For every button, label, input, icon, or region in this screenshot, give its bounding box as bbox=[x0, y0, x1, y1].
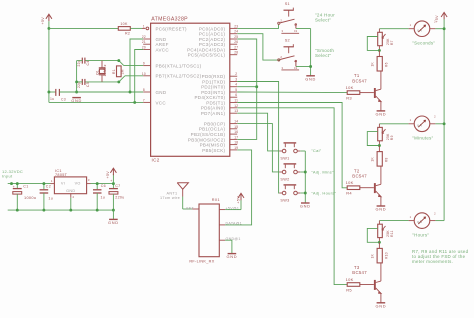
svg-text:26: 26 bbox=[234, 40, 238, 44]
svg-text:RX1: RX1 bbox=[212, 198, 220, 202]
svg-text:3: 3 bbox=[282, 66, 284, 70]
svg-text:"Cal": "Cal" bbox=[311, 148, 322, 153]
svg-text:2: 2 bbox=[434, 211, 436, 215]
svg-text:meter movements.: meter movements. bbox=[412, 259, 453, 264]
svg-text:C1: C1 bbox=[23, 185, 28, 189]
svg-text:S2: S2 bbox=[285, 38, 290, 42]
svg-text:PD6(AIN0): PD6(AIN0) bbox=[201, 106, 226, 111]
svg-text:1M: 1M bbox=[120, 69, 124, 74]
svg-text:1u: 1u bbox=[50, 97, 54, 101]
svg-text:ANT1: ANT1 bbox=[167, 191, 178, 195]
svg-text:14: 14 bbox=[234, 120, 238, 124]
svg-text:+5V: +5V bbox=[41, 17, 45, 25]
svg-text:3: 3 bbox=[88, 178, 90, 182]
svg-text:R11: R11 bbox=[390, 230, 394, 237]
svg-text:22: 22 bbox=[142, 35, 146, 39]
svg-text:AVCC: AVCC bbox=[156, 47, 170, 52]
svg-text:23: 23 bbox=[234, 24, 238, 28]
svg-text:R7: R7 bbox=[390, 40, 394, 45]
svg-text:6: 6 bbox=[235, 93, 237, 97]
svg-text:"Hours": "Hours" bbox=[412, 233, 429, 238]
svg-text:"Seconds": "Seconds" bbox=[412, 41, 435, 46]
svg-text:RF-LINK_RX: RF-LINK_RX bbox=[189, 260, 214, 264]
svg-text:1K: 1K bbox=[371, 253, 375, 258]
svg-text:R9: R9 bbox=[390, 135, 394, 140]
svg-text:PD7(AIN1): PD7(AIN1) bbox=[201, 111, 226, 116]
svg-text:GND: GND bbox=[227, 254, 238, 259]
svg-text:+: + bbox=[13, 185, 15, 189]
svg-text:Input: Input bbox=[2, 174, 13, 179]
svg-text:PB7(XTAL2/TOSC2): PB7(XTAL2/TOSC2) bbox=[156, 74, 202, 79]
svg-text:Select": Select" bbox=[315, 53, 331, 58]
svg-text:4: 4 bbox=[235, 83, 237, 87]
svg-text:PD4(XCK/T0): PD4(XCK/T0) bbox=[194, 95, 225, 100]
svg-text:GND: GND bbox=[156, 90, 167, 95]
svg-text:1u: 1u bbox=[101, 196, 106, 200]
svg-text:12: 12 bbox=[234, 104, 238, 108]
svg-text:11: 11 bbox=[234, 99, 238, 103]
svg-text:3: 3 bbox=[235, 78, 237, 82]
svg-text:15: 15 bbox=[234, 125, 238, 129]
svg-text:9: 9 bbox=[143, 62, 145, 66]
svg-text:16: 16 bbox=[234, 130, 238, 134]
svg-text:GND: GND bbox=[66, 189, 75, 193]
svg-text:+5V: +5V bbox=[106, 171, 110, 179]
svg-text:2: 2 bbox=[235, 72, 237, 76]
svg-text:VCC: VCC bbox=[156, 100, 167, 105]
svg-text:8: 8 bbox=[143, 88, 145, 92]
svg-text:22p: 22p bbox=[77, 82, 81, 88]
svg-text:1u: 1u bbox=[48, 196, 53, 200]
svg-text:VO: VO bbox=[75, 181, 81, 185]
svg-text:2: 2 bbox=[280, 55, 282, 59]
svg-text:IC2: IC2 bbox=[152, 158, 160, 163]
svg-text:28: 28 bbox=[234, 51, 238, 55]
svg-text:10K: 10K bbox=[346, 277, 354, 282]
svg-text:19: 19 bbox=[234, 146, 238, 150]
svg-text:1: 1 bbox=[410, 215, 412, 219]
svg-text:GND: GND bbox=[300, 204, 311, 209]
svg-text:1: 1 bbox=[410, 23, 412, 27]
svg-text:25K: 25K bbox=[386, 38, 390, 45]
svg-text:R10: R10 bbox=[384, 252, 388, 259]
svg-text:"Adj. Mins": "Adj. Mins" bbox=[311, 169, 334, 174]
svg-text:PD5(T1): PD5(T1) bbox=[206, 100, 225, 105]
svg-text:R8: R8 bbox=[384, 157, 388, 162]
svg-text:"Minutes": "Minutes" bbox=[412, 136, 433, 141]
svg-text:2: 2 bbox=[280, 18, 282, 22]
svg-text:10K: 10K bbox=[346, 85, 354, 90]
svg-text:22p: 22p bbox=[77, 60, 81, 66]
svg-text:25K: 25K bbox=[386, 230, 390, 237]
svg-text:PB2(SS/OC1B): PB2(SS/OC1B) bbox=[191, 132, 226, 137]
svg-text:PC0(ADC0): PC0(ADC0) bbox=[199, 26, 226, 31]
svg-text:SW1: SW1 bbox=[280, 156, 289, 160]
svg-text:24: 24 bbox=[234, 30, 238, 34]
svg-text:PC5(ADC5/SCL): PC5(ADC5/SCL) bbox=[188, 53, 226, 58]
svg-text:SW3: SW3 bbox=[280, 198, 289, 202]
svg-text:C5: C5 bbox=[86, 82, 90, 87]
svg-text:17cm wire: 17cm wire bbox=[160, 196, 180, 200]
svg-text:C3: C3 bbox=[61, 97, 66, 101]
svg-text:PD2(INT0): PD2(INT0) bbox=[201, 85, 225, 90]
svg-text:17: 17 bbox=[234, 135, 238, 139]
svg-text:1: 1 bbox=[410, 118, 412, 122]
svg-text:20: 20 bbox=[142, 46, 146, 50]
svg-text:AREF: AREF bbox=[156, 42, 169, 47]
svg-text:GND: GND bbox=[376, 207, 387, 212]
svg-text:R5: R5 bbox=[346, 287, 352, 292]
svg-text:Q1: Q1 bbox=[95, 70, 99, 75]
svg-text:25K: 25K bbox=[386, 133, 390, 140]
svg-text:PB4(MISO): PB4(MISO) bbox=[200, 143, 226, 148]
svg-text:R1: R1 bbox=[112, 69, 116, 74]
svg-text:220u: 220u bbox=[115, 195, 124, 199]
svg-text:C7: C7 bbox=[115, 184, 120, 188]
svg-text:R3: R3 bbox=[346, 96, 352, 101]
svg-text:5: 5 bbox=[235, 88, 237, 92]
svg-text:1: 1 bbox=[51, 179, 53, 183]
svg-text:16MHz: 16MHz bbox=[103, 64, 107, 76]
svg-text:10K: 10K bbox=[346, 180, 354, 185]
svg-text:10K: 10K bbox=[120, 22, 128, 26]
svg-text:GND: GND bbox=[376, 303, 387, 308]
svg-text:ANT: ANT bbox=[186, 206, 195, 210]
svg-text:Select": Select" bbox=[315, 17, 331, 22]
svg-text:C2: C2 bbox=[46, 185, 51, 189]
svg-text:PB5(SCK): PB5(SCK) bbox=[202, 148, 225, 153]
svg-text:PB1(OC1A): PB1(OC1A) bbox=[199, 127, 226, 132]
svg-text:C6: C6 bbox=[101, 184, 106, 188]
svg-text:18: 18 bbox=[234, 141, 238, 145]
svg-text:R6: R6 bbox=[384, 62, 388, 67]
svg-text:21: 21 bbox=[142, 40, 146, 44]
svg-text:01: 01 bbox=[294, 29, 298, 33]
svg-text:BC547: BC547 bbox=[352, 173, 367, 178]
svg-text:R2: R2 bbox=[125, 31, 130, 35]
svg-text:1000u: 1000u bbox=[24, 195, 36, 200]
svg-text:C4: C4 bbox=[86, 61, 90, 66]
svg-text:PD0(RXD): PD0(RXD) bbox=[202, 74, 226, 79]
svg-text:PB6(XTAL1/TOSC1): PB6(XTAL1/TOSC1) bbox=[156, 64, 202, 69]
svg-text:1: 1 bbox=[143, 24, 145, 28]
svg-text:+: + bbox=[110, 179, 112, 183]
svg-text:ATMEGA328P: ATMEGA328P bbox=[151, 17, 188, 23]
svg-text:3: 3 bbox=[282, 29, 284, 33]
svg-text:PC1(ADC1): PC1(ADC1) bbox=[199, 32, 226, 37]
svg-text:7805T: 7805T bbox=[55, 173, 68, 177]
svg-text:2: 2 bbox=[434, 115, 436, 119]
svg-text:13: 13 bbox=[234, 109, 238, 113]
svg-text:S1: S1 bbox=[285, 2, 290, 6]
svg-text:10: 10 bbox=[142, 72, 146, 76]
svg-text:VI: VI bbox=[61, 181, 65, 185]
svg-text:SW2: SW2 bbox=[280, 177, 289, 181]
svg-text:"Adj. Hours": "Adj. Hours" bbox=[311, 190, 336, 195]
svg-text:1K: 1K bbox=[371, 61, 375, 66]
svg-text:2: 2 bbox=[72, 195, 74, 199]
svg-text:GND: GND bbox=[108, 220, 119, 225]
svg-text:27: 27 bbox=[234, 46, 238, 50]
svg-text:+5V: +5V bbox=[435, 15, 439, 23]
svg-text:25: 25 bbox=[234, 35, 238, 39]
svg-text:BC547: BC547 bbox=[352, 78, 367, 83]
svg-text:GND: GND bbox=[305, 76, 316, 81]
svg-text:1K: 1K bbox=[371, 157, 375, 162]
svg-text:7: 7 bbox=[143, 98, 145, 102]
svg-text:PC6(/RESET): PC6(/RESET) bbox=[156, 26, 188, 31]
svg-text:BC547: BC547 bbox=[352, 270, 367, 275]
svg-text:PC3(ADC3): PC3(ADC3) bbox=[199, 42, 226, 47]
svg-text:R4: R4 bbox=[346, 191, 352, 196]
svg-text:GND: GND bbox=[376, 112, 387, 117]
svg-text:+5V: +5V bbox=[237, 196, 241, 204]
